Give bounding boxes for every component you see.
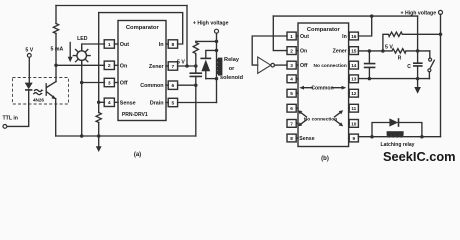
node collector/On junction [54, 64, 58, 68]
arrow 5 mA current direction [68, 43, 73, 63]
pin 6 (b) [287, 104, 298, 112]
resistor R4 (top, horizontal) [383, 32, 441, 51]
svg-text:8: 8 [290, 136, 293, 141]
svg-text:7: 7 [290, 121, 293, 126]
svg-text:In: In [342, 34, 347, 40]
pin 14 (b) [349, 61, 359, 69]
wire pin5 Drain to coil [178, 102, 217, 104]
svg-text:10: 10 [351, 121, 357, 126]
resistor R1 (LED current limit, vertical) [53, 24, 58, 34]
svg-text:4N26: 4N26 [33, 97, 44, 102]
terminal + High voltage (a) [215, 29, 219, 33]
label Off [120, 81, 128, 87]
svg-text:Off: Off [300, 63, 308, 69]
transistor Q1 phototransistor [46, 82, 56, 100]
svg-text:4: 4 [290, 77, 293, 82]
svg-text:No connection: No connection [304, 116, 337, 122]
node common/cap [194, 83, 198, 87]
optocoupler U2 4N26 dashed enclosure [13, 78, 69, 105]
svg-text:On: On [300, 49, 307, 55]
svg-text:2: 2 [290, 49, 293, 54]
svg-text:(b): (b) [321, 156, 329, 162]
pin 4 (b) [287, 75, 298, 83]
svg-text:Common: Common [311, 86, 333, 92]
resistor R5 "R" (horizontal) [392, 49, 430, 53]
op-amp U3 inverter [258, 57, 275, 73]
node LED line to ground rail [80, 134, 84, 138]
wire 5V terminal to opto LED anode [28, 57, 30, 82]
svg-text:SeekIC.com: SeekIC.com [383, 149, 456, 164]
svg-text:1: 1 [290, 34, 293, 39]
pin 7 (b) [287, 120, 298, 128]
svg-text:solenoid: solenoid [220, 75, 244, 81]
svg-text:Comparator: Comparator [126, 25, 160, 31]
node HV/diode branch [215, 49, 219, 53]
svg-text:11: 11 [351, 106, 356, 111]
pin 1 (b) [287, 32, 298, 40]
label 5 V (b) [385, 45, 393, 51]
label Latching relay [381, 142, 415, 148]
svg-text:5 V: 5 V [177, 60, 185, 66]
svg-text:or: or [229, 66, 235, 72]
label On [120, 63, 128, 69]
node cap C2 / pin13 wire [368, 77, 372, 81]
wire LED lamp down to ground rail [81, 60, 83, 136]
label 4N26 [33, 97, 44, 102]
wire inverter output to pin3 Off [275, 64, 288, 66]
wire emitter down to ground rail [55, 99, 57, 136]
wire pin1 Out to LED lamp [82, 44, 105, 51]
wire diode bottom to coil bottom [206, 78, 217, 80]
label Drain [150, 101, 164, 107]
wire sense chain from inner rail [98, 13, 100, 113]
op-amp U1 comparator PRN-DRV1 box [118, 21, 166, 121]
wire pin7 Zener to 5V node [178, 65, 196, 67]
svg-text:TTL in: TTL in [3, 116, 18, 122]
wire left leg down to resistor [55, 6, 57, 24]
label Comparator (b) [307, 27, 341, 33]
op-amp U4 comparator box (b) [298, 23, 349, 147]
light arrows opto coupling [34, 89, 44, 94]
pin 2 (a) [104, 61, 118, 69]
wire top rail (b) [273, 15, 417, 17]
pin 13 (b) [349, 75, 359, 83]
node diode/coil/drain [215, 77, 219, 81]
wire resistor to collector node [55, 34, 57, 82]
node R4 leg / zener wire [381, 49, 385, 53]
label Out (b) [300, 34, 309, 40]
label Sense (b) [299, 136, 314, 142]
wire top outer rail (5V supply rail) [56, 5, 187, 7]
svg-text:8: 8 [172, 42, 175, 48]
node x417 / zener wire [416, 49, 420, 53]
label Zener (b) [333, 49, 347, 55]
wire pin9 Sense rail to HV leg [358, 136, 440, 138]
wire diode branch [372, 123, 422, 137]
svg-text:16: 16 [351, 34, 357, 39]
label Comparator (a) [126, 25, 160, 31]
label Sense [120, 101, 136, 107]
svg-text:In: In [159, 42, 164, 48]
label LED [77, 36, 88, 42]
pin 1 (a) [104, 40, 118, 48]
wire HV to R2 top [196, 40, 217, 42]
wire R2 to capacitor [195, 55, 197, 73]
wire x=417.6 leg from rail down [417, 16, 419, 79]
svg-text:On: On [120, 63, 128, 69]
svg-text:C: C [407, 64, 411, 70]
node pin4 sense junction [97, 101, 101, 105]
svg-text:PRN-DRV1: PRN-DRV1 [122, 112, 148, 118]
wire opto LED cathode down to TTL input [7, 90, 29, 127]
label 5 V zener [177, 60, 185, 66]
svg-text:4: 4 [108, 100, 111, 106]
svg-text:1: 1 [108, 42, 111, 48]
capacitor C1 [190, 73, 203, 76]
pin 7 (a) [166, 62, 178, 70]
svg-text:14: 14 [351, 63, 357, 68]
pin 9 (b) [349, 134, 359, 142]
svg-text:15: 15 [351, 49, 357, 54]
svg-text:3: 3 [290, 63, 293, 68]
ground symbol (b) [414, 79, 421, 94]
svg-text:3: 3 [108, 80, 111, 86]
label Zener [149, 64, 165, 70]
wire pin13 to switch bottom [358, 78, 429, 80]
LED indicator lamp [73, 47, 90, 63]
node x417 / pin13 wire [416, 77, 420, 81]
label 5 V supply left [25, 48, 33, 54]
node pin9/diode branch [370, 135, 374, 139]
pin 3 (b) [287, 61, 298, 69]
label In [159, 42, 164, 48]
label + High voltage (b) [400, 11, 436, 17]
svg-text:Sense: Sense [120, 101, 136, 107]
wire capacitor to common/rail [195, 76, 197, 136]
pin 16 (b) [349, 32, 359, 40]
svg-text:No connection: No connection [313, 63, 346, 69]
svg-text:6: 6 [290, 106, 293, 111]
label C [407, 64, 411, 70]
svg-text:Latching relay: Latching relay [381, 142, 415, 148]
svg-text:5: 5 [290, 91, 293, 96]
label 5 mA [51, 47, 64, 53]
terminal + High voltage (b) [439, 10, 443, 14]
node HV/resistor wire [439, 33, 443, 37]
svg-text:Out: Out [300, 34, 309, 40]
wire pin3 Off [82, 82, 105, 84]
node Off/LED line junction [80, 81, 84, 85]
wire HV (b) right leg [440, 14, 442, 136]
node In/rail [370, 14, 374, 18]
wire HV to diode cathode [206, 50, 217, 58]
pin 3 (a) [104, 78, 118, 86]
svg-text:Relay: Relay [224, 57, 240, 63]
capacitor C2 (left, b) [364, 51, 376, 79]
node sense/rail [97, 134, 101, 138]
svg-text:9: 9 [352, 136, 355, 141]
pin 8 (a) [166, 40, 178, 48]
label Common (b) with arrows [299, 86, 346, 92]
node resistor leg/zener [194, 64, 198, 68]
svg-text:LED: LED [77, 36, 88, 42]
terminal TTL in [3, 125, 7, 129]
ground symbol (a) [96, 136, 102, 152]
svg-text:Common: Common [140, 83, 163, 89]
label Off (b) [300, 63, 308, 69]
pin 2 (b) [287, 47, 298, 55]
resistor R3 sense [96, 113, 101, 123]
inductor L1 relay coil (a) [216, 58, 222, 76]
label No connection crossing arrows [298, 110, 343, 126]
svg-text:(a): (a) [134, 152, 141, 158]
terminal 5 V [27, 54, 31, 58]
pin 5 (b) [287, 89, 298, 97]
switch S1 [428, 51, 434, 79]
label Relay or solenoid [220, 57, 244, 81]
label (b) [321, 156, 329, 162]
wire pin4 Sense [99, 101, 105, 103]
pin 15 (b) [349, 47, 359, 55]
diode D2 [389, 118, 398, 127]
svg-text:Sense: Sense [299, 136, 314, 142]
wire inner rail to pin8 In [99, 13, 183, 44]
diode opto LED [25, 83, 33, 90]
pin 8 (b) [287, 134, 298, 142]
svg-text:+ High voltage: + High voltage [400, 11, 436, 17]
svg-text:2: 2 [108, 63, 111, 69]
watermark SeekIC.com [383, 149, 456, 164]
label On (b) [300, 49, 307, 55]
svg-text:7: 7 [172, 64, 175, 70]
wire pin2 On up to top rail [273, 16, 287, 51]
svg-text:13: 13 [351, 77, 357, 82]
svg-text:Zener: Zener [149, 64, 165, 70]
diode D1 flyback [200, 58, 211, 78]
label Common [140, 83, 163, 89]
wire pin2 On to collector [56, 64, 104, 66]
pin 11 (b) [349, 104, 359, 112]
pin 5 (a) [166, 98, 178, 106]
svg-text:Zener: Zener [333, 49, 347, 55]
svg-text:5 V: 5 V [25, 48, 33, 54]
node rail/zener [185, 64, 189, 68]
label Out [120, 42, 129, 48]
node zener wire / cap b1 [368, 49, 372, 53]
resistor R2 (HV dropping, vertical) [193, 41, 198, 55]
svg-text:6: 6 [172, 83, 175, 89]
pin 12 (b) [349, 89, 359, 97]
svg-text:Out: Out [120, 42, 129, 48]
pin 10 (b) [349, 120, 359, 128]
wire pin1 Out to inverter input [252, 36, 287, 65]
wire sense resistor to rail [98, 123, 100, 137]
wire pin6 Common to cap bottom [178, 84, 196, 86]
wire HV leg down through coil to drain [216, 33, 218, 102]
label No connection pin14 [313, 63, 346, 69]
svg-text:Drain: Drain [150, 101, 164, 107]
inductor L2 latching relay coil [387, 131, 404, 137]
wire pin16 In up to rail [358, 16, 371, 36]
label (a) [134, 152, 141, 158]
svg-text:5 mA: 5 mA [51, 47, 64, 53]
wire outer rail right leg [186, 6, 188, 67]
wire ground rail [56, 135, 196, 137]
svg-text:5: 5 [172, 100, 175, 106]
label PRN-DRV1 [122, 112, 148, 118]
label + High voltage (a) [193, 21, 229, 27]
label In (b) [342, 34, 347, 40]
svg-text:12: 12 [351, 91, 357, 96]
svg-text:Off: Off [120, 81, 128, 87]
capacitor C3 "C" [413, 63, 423, 66]
svg-text:R: R [398, 55, 402, 61]
svg-text:+ High voltage: + High voltage [193, 21, 229, 27]
wire pin15 Zener to switch [358, 50, 391, 52]
node HV/R2 branch [215, 40, 219, 44]
pin 6 (a) [166, 81, 178, 89]
node diode right/relay wire [420, 135, 424, 139]
label TTL in [3, 116, 18, 122]
label R [398, 55, 402, 61]
svg-text:Comparator: Comparator [307, 27, 341, 33]
pin 4 (a) [104, 98, 118, 106]
